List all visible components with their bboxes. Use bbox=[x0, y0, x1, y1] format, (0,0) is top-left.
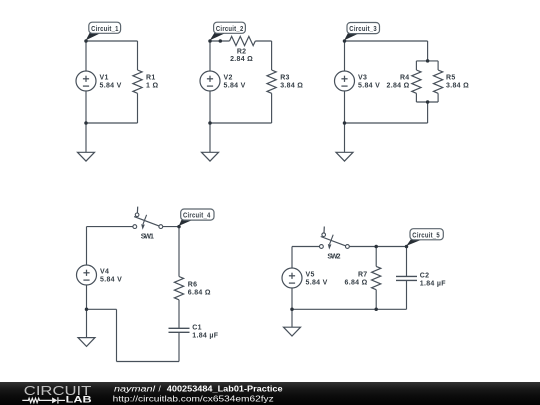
svg-text:V2: V2 bbox=[224, 75, 233, 82]
svg-text:6.84 Ω: 6.84 Ω bbox=[188, 289, 211, 296]
label V2 value 5.84 V bbox=[224, 75, 246, 90]
capacitor C2 bbox=[396, 276, 417, 280]
resistor R7 bbox=[372, 266, 381, 289]
wire c3 right drop bbox=[427, 102, 429, 123]
wire c4 left upper bbox=[86, 227, 88, 265]
resistor R3 bbox=[267, 70, 276, 93]
wire c5 R7 bottom lead bbox=[375, 290, 377, 310]
node c3 parallel bottom bbox=[426, 100, 430, 104]
wire c3 R5 bottom lead bbox=[437, 93, 439, 102]
svg-text:V5: V5 bbox=[306, 272, 315, 279]
wire c1 right upper bbox=[137, 41, 139, 70]
svg-text:5.84 V: 5.84 V bbox=[100, 82, 122, 89]
node c2 label attach bbox=[219, 39, 223, 43]
switch SW2 lever bbox=[321, 237, 346, 246]
switch SW2 right terminal bbox=[346, 245, 350, 249]
label C2 value 1.84 &#181;F bbox=[420, 273, 446, 288]
svg-text:V1: V1 bbox=[100, 75, 109, 82]
svg-text:Circuit_5: Circuit_5 bbox=[412, 232, 440, 239]
svg-text:R1: R1 bbox=[146, 75, 156, 82]
svg-text:V4: V4 bbox=[100, 269, 109, 276]
wire c4 R6 to C1 bbox=[178, 300, 180, 329]
label R5 value 3.84 &#937; bbox=[446, 75, 469, 90]
voltage source V3 bbox=[335, 71, 355, 91]
capacitor C1 bbox=[169, 328, 190, 332]
svg-text:3.84 Ω: 3.84 Ω bbox=[280, 82, 303, 89]
label R4 value 2.84 &#937; bbox=[387, 75, 410, 90]
label V1 value 5.84 V bbox=[100, 75, 122, 90]
label C1 value 1.84 &#181;F bbox=[192, 325, 218, 340]
node flag Circuit_4 box bbox=[181, 209, 214, 220]
node c3 bottom-left bbox=[343, 121, 347, 125]
wire c4 bottom rail bbox=[117, 361, 180, 363]
svg-text:R5: R5 bbox=[446, 75, 456, 82]
wire c5 left upper bbox=[291, 247, 293, 269]
wire c3 parallel bottom bar bbox=[416, 101, 438, 103]
label V4 value 5.84 V bbox=[100, 269, 122, 284]
svg-text:SW2: SW2 bbox=[327, 253, 341, 260]
svg-text:R6: R6 bbox=[188, 282, 198, 289]
wire c3 bottom rail bbox=[345, 122, 428, 124]
resistor R4 bbox=[412, 70, 421, 93]
svg-text:SW1: SW1 bbox=[141, 233, 155, 240]
node flag Circuit_1 pointer bbox=[86, 33, 102, 40]
voltage source V1 bbox=[76, 71, 96, 91]
switch SW2 actuate arrow bbox=[328, 235, 333, 250]
node c5 R7 bottom bbox=[374, 308, 378, 312]
wire c4 top rail left bbox=[87, 226, 133, 228]
svg-text:C2: C2 bbox=[420, 273, 430, 280]
wire c5 R7 top lead bbox=[375, 247, 377, 267]
svg-text:R4: R4 bbox=[400, 75, 410, 82]
wire c5 C2 to corner bbox=[406, 280, 408, 309]
svg-text:5.84 V: 5.84 V bbox=[100, 276, 122, 283]
svg-text:6.84 Ω: 6.84 Ω bbox=[345, 279, 368, 286]
switch SW1 right terminal bbox=[159, 225, 163, 229]
node c2 top-left bbox=[208, 39, 212, 43]
svg-text:Circuit_1: Circuit_1 bbox=[91, 26, 119, 33]
wire c4 top rail right bbox=[163, 226, 179, 228]
switch SW1 left terminal bbox=[133, 225, 137, 229]
node c3 top-left bbox=[343, 39, 347, 43]
ground bbox=[336, 152, 353, 161]
svg-text:R7: R7 bbox=[358, 272, 368, 279]
svg-text:1.84 µF: 1.84 µF bbox=[192, 332, 218, 339]
wire c3 top rail bbox=[345, 40, 428, 42]
wire c1 left upper bbox=[85, 41, 87, 71]
node flag Circuit_5 box bbox=[410, 229, 443, 240]
label R1 value 1 &#937; bbox=[146, 75, 158, 90]
resistor R2 bbox=[230, 36, 256, 45]
node flag Circuit_4 pointer bbox=[179, 220, 193, 226]
svg-text:Circuit_4: Circuit_4 bbox=[183, 213, 211, 220]
wire c1 top rail bbox=[86, 40, 138, 42]
voltage source V2 bbox=[200, 71, 220, 91]
node flag Circuit_2 box bbox=[214, 22, 246, 33]
svg-text:Circuit_3: Circuit_3 bbox=[349, 26, 377, 33]
svg-text:C1: C1 bbox=[192, 325, 202, 332]
svg-text:2.84 Ω: 2.84 Ω bbox=[230, 56, 253, 63]
wire c2 right lower bbox=[271, 93, 273, 123]
voltage source V4 bbox=[77, 265, 97, 285]
svg-text:http://circuitlab.com/cx6534em: http://circuitlab.com/cx6534em62fyz bbox=[113, 393, 274, 403]
svg-text:1.84 µF: 1.84 µF bbox=[420, 281, 446, 288]
label R6 value 6.84 &#937; bbox=[188, 282, 211, 297]
wire c5 bottom rail bbox=[292, 308, 407, 310]
wire c2 right upper bbox=[271, 41, 273, 70]
label R7 value 6.84 &#937; bbox=[345, 272, 368, 287]
wire c1 ground stem bbox=[85, 123, 87, 152]
wire c1 left lower bbox=[85, 91, 87, 123]
node flag Circuit_2 pointer bbox=[210, 33, 226, 40]
resistor R1 bbox=[133, 70, 142, 93]
wire c3 parallel top bar bbox=[416, 60, 438, 62]
wire c2 bottom rail bbox=[210, 122, 272, 124]
wire c3 left lower bbox=[344, 91, 346, 123]
svg-text:naymanl/400253484_Lab01-Practi: naymanl/400253484_Lab01-Practice bbox=[114, 384, 283, 394]
switch SW2 left terminal bbox=[320, 245, 324, 249]
switch SW1 lever bbox=[134, 217, 159, 226]
label V5 value 5.84 V bbox=[306, 272, 328, 287]
svg-text:R2: R2 bbox=[237, 48, 247, 55]
node c4 bottom-left bbox=[85, 308, 89, 312]
node flag Circuit_1 box bbox=[89, 22, 121, 33]
node c5 R7 top bbox=[374, 245, 378, 249]
wire c2 left lower bbox=[209, 91, 211, 123]
node flag Circuit_3 box bbox=[347, 23, 380, 34]
svg-text:R3: R3 bbox=[280, 75, 290, 82]
switch SW1 throw stub bbox=[136, 207, 138, 213]
switch SW2 top terminal bbox=[322, 233, 326, 237]
switch SW2 throw stub bbox=[323, 227, 325, 233]
wire c5 ground stem bbox=[291, 309, 293, 327]
wire c3 R5 top lead bbox=[437, 61, 439, 70]
ground bbox=[202, 152, 219, 161]
wire c1 right lower bbox=[137, 93, 139, 123]
wire c2 top rail right bbox=[255, 40, 271, 42]
svg-text:5.84 V: 5.84 V bbox=[306, 279, 328, 286]
svg-text:2.84 Ω: 2.84 Ω bbox=[387, 82, 410, 89]
wire c5 left lower bbox=[291, 288, 293, 309]
ground bbox=[78, 338, 95, 347]
wire c4 C1 to bottom bbox=[178, 332, 180, 361]
voltage source V5 bbox=[282, 268, 302, 288]
node c4 label attach bbox=[177, 225, 181, 229]
wire c3 left upper bbox=[344, 41, 346, 71]
wire c5 top rail left bbox=[292, 246, 320, 248]
node c1 top-left bbox=[84, 39, 88, 43]
label R3 value 3.84 &#937; bbox=[280, 75, 303, 90]
wire c3 R4 top lead bbox=[415, 61, 417, 70]
svg-text:3.84 Ω: 3.84 Ω bbox=[446, 82, 469, 89]
node c3 parallel top bbox=[426, 59, 430, 63]
node c1 bottom-left bbox=[84, 121, 88, 125]
wire c3 right feed bbox=[427, 41, 429, 61]
switch SW1 top terminal bbox=[135, 213, 139, 217]
svg-text:5.84 V: 5.84 V bbox=[358, 82, 380, 89]
wire c4 ground stem bbox=[86, 309, 88, 337]
wire c5 top rail mid bbox=[349, 246, 406, 248]
wire c3 R4 bottom lead bbox=[415, 93, 417, 102]
wire c1 bottom rail bbox=[86, 122, 138, 124]
svg-text:5.84 V: 5.84 V bbox=[224, 82, 246, 89]
node c5 bottom-left bbox=[290, 308, 294, 312]
ground bbox=[78, 152, 95, 161]
wire c3 ground stem bbox=[344, 123, 346, 152]
resistor R6 bbox=[174, 277, 183, 300]
switch SW1 actuate arrow bbox=[141, 215, 146, 230]
node flag Circuit_5 pointer bbox=[406, 239, 422, 246]
wire c5 right drop to C2 bbox=[406, 247, 408, 277]
footer bar bbox=[0, 382, 540, 405]
resistor R5 bbox=[434, 70, 443, 93]
svg-text:LAB: LAB bbox=[66, 395, 92, 405]
node c5 label attach bbox=[405, 245, 409, 249]
node c2 bottom-left bbox=[208, 121, 212, 125]
label V3 value 5.84 V bbox=[358, 75, 380, 90]
wire c4 right drop to R6 bbox=[178, 227, 180, 277]
svg-text:V3: V3 bbox=[358, 75, 367, 82]
wire c2 top rail left bbox=[210, 40, 230, 42]
wire c4 left lower bbox=[86, 285, 88, 309]
label R2 value 2.84 &#937; bbox=[230, 48, 253, 63]
wire c2 ground stem bbox=[209, 123, 211, 152]
node flag Circuit_3 pointer bbox=[344, 33, 359, 40]
svg-text:Circuit_2: Circuit_2 bbox=[216, 26, 244, 33]
CircuitLab logo resistor-diode squiggle bbox=[22, 397, 65, 403]
wire c4 riser bbox=[116, 309, 118, 361]
ground bbox=[284, 327, 301, 336]
svg-text:1 Ω: 1 Ω bbox=[146, 82, 158, 89]
wire c2 left upper bbox=[209, 41, 211, 71]
wire c4 node to riser bbox=[87, 308, 117, 310]
